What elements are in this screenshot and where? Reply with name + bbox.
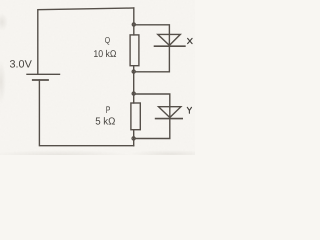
svg-text:5 kΩ: 5 kΩ [95,117,116,128]
svg-text:Q: Q [105,35,111,45]
svg-text:3.0V: 3.0V [10,58,33,70]
svg-text:P: P [106,105,111,116]
svg-text:10 kΩ: 10 kΩ [93,49,116,60]
